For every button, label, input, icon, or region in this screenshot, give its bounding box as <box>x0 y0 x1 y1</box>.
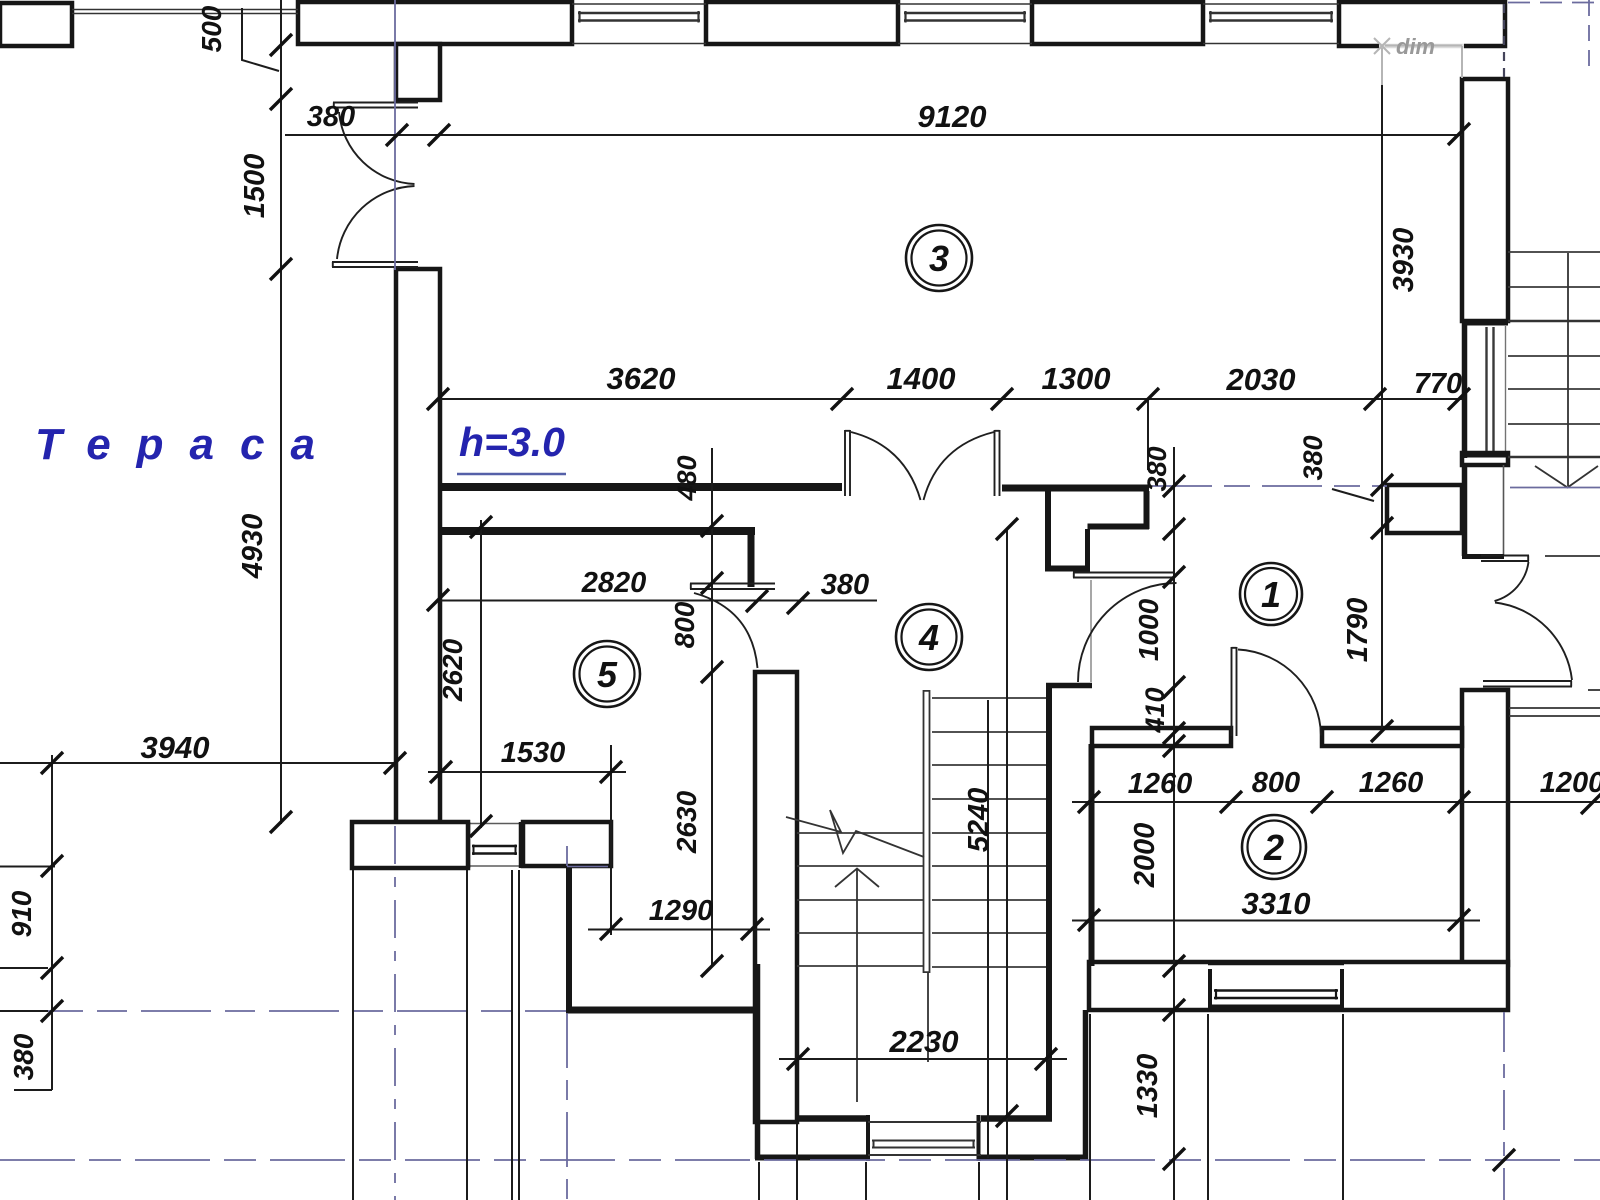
room5 top wall <box>438 527 755 535</box>
wall terrace bottom band <box>352 822 468 868</box>
axis vertical terrace dashed lower <box>394 826 396 1200</box>
ext line x1090 low <box>1089 1014 1091 1200</box>
axis vertical far right <box>1588 0 1590 72</box>
door terrace arc bottom <box>337 186 415 259</box>
door room3 double right jamb <box>995 430 1000 496</box>
leader for 380 stub <box>1332 489 1374 501</box>
door room3 double left jamb <box>845 430 1000 500</box>
ext line left y1011 <box>0 1010 48 1012</box>
wall entrance door top jamb cap <box>1462 554 1504 559</box>
bay window left jamb <box>866 1115 870 1161</box>
ext line x512 <box>511 870 513 1200</box>
door room1 arc <box>1238 650 1321 736</box>
wall terrace-side band <box>396 269 440 822</box>
wall stub below segment 1 <box>396 44 440 100</box>
svg-text:2620: 2620 <box>437 638 468 702</box>
ext line x467 <box>466 870 468 1200</box>
axis horizontal lower-left <box>13 1010 566 1012</box>
hall top wall right of double door <box>1002 485 1149 492</box>
dim line 2230 <box>779 1058 1067 1060</box>
ext line x611 <box>610 745 612 935</box>
T-wall inner vertical <box>1085 529 1090 568</box>
wall hall door band <box>755 672 797 1122</box>
svg-text:dim: dim <box>1396 34 1435 59</box>
door terrace leaf top <box>332 103 418 268</box>
wall top-left pier <box>0 3 72 46</box>
bay outer bottom face right part <box>979 1155 1088 1161</box>
axis horizontal bottom <box>0 1159 1600 1161</box>
svg-text:500: 500 <box>196 5 227 52</box>
watermark dim <box>1374 38 1462 85</box>
leader for 500 <box>242 8 279 71</box>
dim line 2820-380 <box>438 600 877 602</box>
outdoor landing line small <box>1588 689 1600 691</box>
axis vertical terrace door <box>394 0 396 270</box>
ext line left y968 <box>0 967 48 969</box>
svg-text:3620: 3620 <box>607 361 676 396</box>
stairs direction arrow <box>835 869 879 1103</box>
svg-text:1260: 1260 <box>1128 768 1193 800</box>
door hall-to-hallway arc <box>1078 583 1177 682</box>
lower-left bottom wall <box>566 1007 758 1014</box>
lower-left vertical wall <box>566 866 572 1010</box>
svg-text:800: 800 <box>1252 767 1300 799</box>
bay window right jamb <box>977 1115 981 1161</box>
wall right inner face above entrance door <box>1462 464 1468 556</box>
svg-text:1530: 1530 <box>501 737 566 769</box>
svg-text:4930: 4930 <box>237 514 269 580</box>
wall right band lower <box>1462 690 1508 965</box>
svg-text:410: 410 <box>1140 687 1170 733</box>
room circle 1 <box>1240 563 1302 625</box>
svg-text:380: 380 <box>8 1033 39 1080</box>
stairs rail <box>924 690 930 1062</box>
terrace top edge double line <box>72 10 298 14</box>
door entrance top leaf <box>1481 556 1572 687</box>
svg-text:2000: 2000 <box>1129 823 1161 889</box>
dim chain 480-800-2630 <box>711 448 713 966</box>
wall 380 stub right <box>1387 485 1462 533</box>
stairs break line <box>786 810 924 857</box>
svg-text:2: 2 <box>1263 827 1284 868</box>
porch edge lines <box>1509 708 1600 716</box>
axis horizontal pier short <box>567 866 608 868</box>
ext line x519 <box>518 870 520 1200</box>
svg-text:480: 480 <box>672 455 702 501</box>
wall room1-2 left part <box>1092 728 1231 746</box>
door entrance bottom leaf <box>1483 681 1572 687</box>
T-wall lower shelf <box>1088 524 1150 530</box>
svg-text:380: 380 <box>307 101 355 133</box>
dim line 2620 <box>480 520 482 828</box>
stairs outdoor arrow <box>1535 253 1598 488</box>
dim line 1530 <box>428 771 626 773</box>
door terrace leaf bottom <box>332 262 418 267</box>
watermark whitening patch <box>1379 41 1464 51</box>
door hall-to-hallway leaf <box>1073 573 1177 683</box>
door room1 leaf <box>1232 647 1322 736</box>
svg-text:9120: 9120 <box>918 99 987 134</box>
T-wall bottom cap <box>1045 566 1090 572</box>
room2 left wall <box>1089 744 1095 966</box>
door hall-to-hallway closed line <box>1090 580 1092 682</box>
dim chain 3930-380-1790 <box>1381 60 1383 731</box>
room circle 2 <box>1242 815 1306 879</box>
svg-text:1: 1 <box>1261 574 1281 615</box>
door entrance bottom arc <box>1495 603 1572 681</box>
svg-text:1260: 1260 <box>1359 767 1424 799</box>
svg-text:1200: 1200 <box>1540 767 1600 799</box>
door entrance top arc <box>1495 562 1529 601</box>
axis horizontal room1 <box>1152 485 1387 487</box>
window room2 bottom <box>1208 965 1344 1009</box>
svg-text:2820: 2820 <box>581 567 647 599</box>
wall top segment 4 <box>1339 2 1505 46</box>
bay outer bottom face left part <box>755 1155 866 1161</box>
wall top segment 2 <box>706 2 898 44</box>
svg-text:1790: 1790 <box>1342 598 1374 663</box>
window top 2 <box>898 4 1032 44</box>
stairs right flight treads <box>932 698 1046 967</box>
room circle 5 <box>574 641 640 707</box>
bay inner bottom right part <box>981 1115 1052 1122</box>
wall top segment 3 <box>1032 2 1203 44</box>
underline h=3.0 <box>457 473 566 475</box>
room3 bottom wall <box>439 483 842 491</box>
door room3 arc left <box>851 432 921 500</box>
T-wall vertical stroke <box>1045 491 1051 568</box>
wall top segment 1 <box>298 2 572 44</box>
svg-text:3940: 3940 <box>141 730 210 765</box>
svg-text:2030: 2030 <box>1226 362 1296 397</box>
dim line 1290 <box>588 929 770 931</box>
axis vertical right wall top dashes <box>1503 4 1505 80</box>
dim line 380/9120 top <box>285 134 1462 136</box>
stairs left flight treads <box>797 833 923 966</box>
svg-text:h=3.0: h=3.0 <box>459 419 565 465</box>
svg-text:1400: 1400 <box>887 361 956 396</box>
stairwell right wall <box>1046 685 1052 1119</box>
wall right sill piece below window <box>1462 453 1508 465</box>
axis vertical hall left <box>566 846 568 866</box>
svg-text:5: 5 <box>597 654 618 695</box>
ext line x1148 <box>1147 399 1149 470</box>
ext line left y866 <box>0 866 55 868</box>
ext line x979 low <box>978 1162 980 1200</box>
wall pier between windows <box>523 822 611 866</box>
dim line 3310 <box>1072 920 1480 922</box>
dim chain right center 380-1000-410-2000-1330 <box>1173 447 1175 1200</box>
wall room1-2 right part <box>1322 728 1462 746</box>
underline 380 left <box>14 1089 52 1091</box>
svg-text:1330: 1330 <box>1132 1054 1164 1119</box>
ext line x759 low <box>758 1162 760 1200</box>
ext line x866 low <box>865 1162 867 1200</box>
door room5 arc <box>694 593 758 668</box>
dim line 3620-1400-1300-2030-770 <box>438 398 1462 400</box>
dim line 1260-800-1260-1200 <box>1072 801 1600 803</box>
svg-text:800: 800 <box>669 601 700 648</box>
ext line x1343 low <box>1342 1014 1344 1200</box>
svg-text:910: 910 <box>6 890 37 937</box>
dim chain left 500-1500-4930 <box>280 0 282 824</box>
outdoor landing line top <box>1545 555 1600 557</box>
ext line x353 <box>352 870 354 1200</box>
window right wall <box>1462 321 1508 458</box>
stairs outdoor treads <box>1508 252 1600 457</box>
dim chain far left 910-380 <box>51 755 53 1090</box>
wall right outer thin jamb line <box>1503 465 1505 556</box>
svg-text:1500: 1500 <box>239 154 271 219</box>
wall room5 right jamb above door <box>748 531 755 587</box>
svg-text:3: 3 <box>929 238 949 279</box>
svg-text:3310: 3310 <box>1242 886 1311 921</box>
svg-text:1300: 1300 <box>1042 361 1111 396</box>
bay inner bottom left part <box>797 1115 868 1122</box>
window terrace bottom <box>469 822 521 868</box>
T-wall right cap <box>1144 491 1150 529</box>
door room3 arc right <box>924 432 995 500</box>
axis horizontal top right <box>1508 2 1600 4</box>
bay window glass bar <box>868 1122 981 1155</box>
wall room2 bottom band <box>1089 962 1508 1010</box>
svg-text:2230: 2230 <box>889 1024 959 1059</box>
bay outer right face <box>1083 1010 1089 1160</box>
dim line 5240 <box>1006 529 1008 1200</box>
dim line 3940 <box>0 762 398 764</box>
svg-text:4: 4 <box>918 617 939 658</box>
ext line x988 stairs <box>987 700 989 1158</box>
bay outer left face <box>755 964 761 1159</box>
svg-text:380: 380 <box>1298 435 1328 480</box>
svg-text:770: 770 <box>1414 368 1462 400</box>
wall right band upper <box>1462 79 1508 321</box>
svg-text:380: 380 <box>1142 446 1172 491</box>
room circle 3 <box>906 225 972 291</box>
axis vertical right wall lower <box>1503 1012 1505 1200</box>
door room5 leaf <box>690 584 775 669</box>
room circle 4 <box>896 604 962 670</box>
svg-text:5240: 5240 <box>963 788 995 853</box>
svg-text:1000: 1000 <box>1133 598 1164 661</box>
svg-text:380: 380 <box>821 569 869 601</box>
ext line x797 low <box>796 1124 798 1200</box>
ext line x1208 low <box>1207 1014 1209 1200</box>
stairwell top cap <box>1046 683 1092 689</box>
svg-text:Тераса: Тераса <box>35 420 341 469</box>
door terrace arc top <box>339 112 415 184</box>
svg-text:3930: 3930 <box>1388 228 1420 293</box>
svg-text:1290: 1290 <box>649 895 714 927</box>
svg-text:2630: 2630 <box>671 790 702 854</box>
window top 1 <box>572 4 706 44</box>
window top 3 <box>1203 4 1339 44</box>
